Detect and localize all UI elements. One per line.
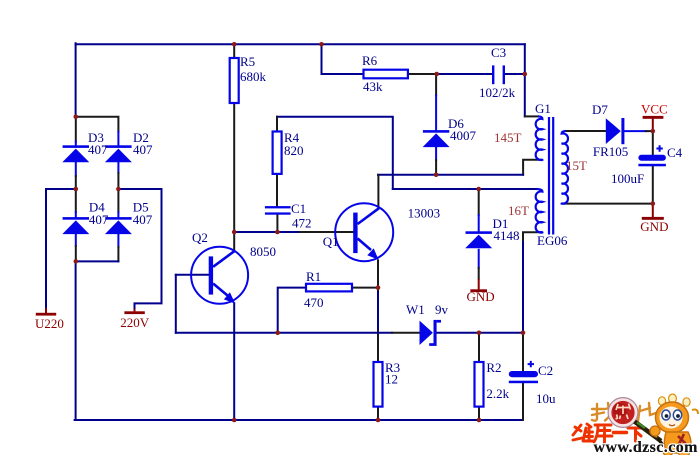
junction R1 branch zener net	[275, 331, 280, 336]
label 15T	[566, 158, 587, 173]
svg-text:C1: C1	[291, 201, 306, 216]
wire C4 bottom lead	[652, 166, 654, 203]
diode D5	[105, 217, 132, 234]
transformer G1 winding 15T	[562, 131, 568, 204]
wire 16T net y189	[393, 188, 537, 190]
watermark text 找	[592, 403, 616, 421]
label GND at D1	[467, 289, 495, 304]
wire R1 left branch	[278, 288, 306, 333]
watermark url www.dzsc.com	[594, 439, 699, 455]
junction R6 branch top	[319, 42, 324, 47]
label VCC	[641, 102, 668, 117]
label R6	[362, 53, 383, 94]
wire C4 top lead	[652, 131, 654, 155]
diode D7	[606, 118, 625, 144]
wire 15T bottom lead to C4 ground node	[565, 203, 653, 205]
resistor R3	[374, 362, 383, 407]
junction C2 16T zener net	[521, 331, 526, 336]
svg-text:GND: GND	[640, 219, 668, 234]
wire R2 top lead	[478, 333, 480, 362]
power VCC symbol	[643, 116, 664, 131]
watermark mascot doll	[650, 394, 698, 455]
transformer G1 core lines	[549, 117, 553, 235]
label C4	[611, 145, 683, 186]
transistor Q1	[335, 203, 393, 261]
junction bridge mid right	[116, 187, 121, 192]
wire AC input left to U220	[46, 189, 76, 308]
junction VCC node	[651, 129, 656, 134]
junction D6 R6 C3 node	[434, 72, 439, 77]
terminal U220	[36, 308, 56, 316]
svg-text:145T: 145T	[494, 130, 522, 145]
wire R5 bottom lead down to base net	[233, 103, 235, 232]
junction C3 right	[523, 72, 528, 77]
watermark text 一	[614, 431, 627, 434]
wire C2 bottom lead to rail corner	[522, 383, 524, 420]
svg-text:8050: 8050	[250, 244, 276, 259]
terminal 220V	[124, 309, 144, 314]
svg-text:15T: 15T	[566, 158, 587, 173]
wire left vertical from top rail to bridge top	[75, 43, 77, 117]
wire R4 top lead	[276, 117, 278, 132]
capacitor C3	[492, 65, 505, 84]
zener diode W1	[420, 320, 442, 346]
junction bridge mid left	[74, 187, 79, 192]
label C1	[291, 201, 312, 231]
wire Q1 emitter lead down	[377, 261, 379, 363]
svg-text:2.2k: 2.2k	[486, 386, 509, 401]
diode D3	[62, 145, 89, 162]
label R1	[304, 269, 324, 310]
svg-text:R2: R2	[486, 360, 501, 375]
svg-text:R6: R6	[362, 53, 378, 68]
svg-text:220V: 220V	[120, 315, 150, 330]
wire Q2 base lead	[176, 274, 209, 276]
ground symbol at C4	[642, 204, 664, 220]
wire R6 branch from top rail	[322, 44, 364, 74]
label D5	[133, 200, 153, 228]
wire R4 to C1 lead	[276, 174, 278, 206]
svg-text:Q2: Q2	[192, 230, 208, 245]
wire right vertical top rail to 145T	[524, 44, 526, 116]
label Q1	[323, 206, 440, 250]
wire bridge bottom horizontal	[76, 260, 119, 262]
svg-text:13003: 13003	[408, 206, 441, 221]
watermark text 维	[573, 424, 593, 441]
label 145T	[494, 130, 522, 145]
wire R6 right lead to D6 node	[408, 73, 437, 75]
svg-text:www.dzsc.com: www.dzsc.com	[594, 439, 699, 455]
junction D1 top	[476, 187, 481, 192]
wire C1 bottom lead	[276, 215, 278, 232]
svg-text:16T: 16T	[508, 203, 529, 218]
wire 15T top lead to D7	[566, 130, 606, 132]
svg-text:U220: U220	[35, 316, 64, 331]
wire C3 right plate to right vertical	[505, 73, 525, 75]
watermark magnifier with 芯	[608, 398, 638, 428]
svg-text:100uF: 100uF	[611, 171, 644, 186]
label R2	[486, 360, 509, 401]
label G1	[535, 101, 551, 116]
transformer G1 winding 145T	[536, 116, 543, 160]
watermark text 库	[594, 425, 612, 443]
capacitor C1	[265, 206, 291, 215]
wire R2 bottom lead	[478, 407, 480, 420]
wire left vertical bridge bottom to ground rail	[75, 261, 77, 420]
wire D7 cathode to VCC node	[624, 130, 652, 132]
wire AC input right to 220V	[118, 189, 161, 309]
label D1	[493, 216, 520, 243]
svg-text:R1: R1	[306, 269, 321, 284]
wire R3 bottom lead	[377, 407, 379, 420]
label U220	[35, 316, 64, 331]
svg-text:12: 12	[385, 372, 398, 387]
junction bridge bottom	[74, 259, 79, 264]
junction R3 bottom rail	[376, 418, 381, 423]
svg-text:9v: 9v	[435, 302, 449, 317]
wire zener net left of W1	[176, 332, 420, 334]
svg-text:FR105: FR105	[593, 144, 628, 159]
junction R2 top zener net	[477, 331, 482, 336]
watermark text 下	[628, 428, 644, 441]
svg-text:407: 407	[133, 212, 153, 227]
wire C2 top lead	[522, 333, 524, 371]
watermark magnifier handle pen	[635, 422, 665, 447]
svg-text:EG06: EG06	[537, 233, 568, 248]
wire 145T bottom lead	[523, 160, 538, 175]
capacitor C2 polarized	[509, 361, 538, 383]
wire R1 right lead	[352, 287, 378, 289]
junction R1 right Q1 emitter	[376, 285, 381, 290]
ground symbol at D1	[470, 279, 487, 292]
label D6	[448, 116, 477, 143]
wire R5 top lead	[233, 44, 235, 58]
watermark text 片	[638, 403, 657, 422]
wire zener net right of W1	[437, 332, 523, 334]
transformer G1 winding 16T	[536, 189, 543, 233]
wire bottom rail	[75, 419, 523, 421]
svg-text:470: 470	[304, 295, 324, 310]
svg-text:G1: G1	[535, 101, 551, 116]
junction R5 top	[232, 42, 237, 47]
wire bridge right branch segments	[117, 132, 119, 262]
junction R5 bottom base net	[232, 230, 237, 235]
capacitor C4 polarized	[638, 145, 666, 166]
wire Q2 collector lead	[233, 232, 235, 251]
label EG06	[537, 233, 568, 248]
svg-text:D7: D7	[592, 102, 608, 117]
svg-text:43k: 43k	[363, 79, 383, 94]
wire base net Q1	[234, 231, 353, 233]
label D7	[592, 102, 628, 159]
junction Q2 emitter bottom rail	[232, 418, 237, 423]
wire top rail	[76, 43, 525, 45]
label Q2	[192, 230, 276, 259]
svg-text:102/2k: 102/2k	[479, 85, 516, 100]
label C3	[479, 45, 516, 100]
diode D6	[423, 130, 450, 147]
label D3	[88, 130, 108, 157]
wire Q1 collector lead	[377, 175, 379, 209]
diode D2	[105, 145, 132, 162]
wire 16T bottom lead down	[523, 232, 539, 333]
wire bridge top horizontal	[76, 117, 119, 132]
label 16T	[508, 203, 529, 218]
wire Q2 emitter lead to bottom rail	[233, 303, 235, 420]
svg-text:C4: C4	[667, 145, 683, 160]
svg-text:W1: W1	[406, 302, 425, 317]
resistor R6	[364, 70, 408, 79]
svg-text:472: 472	[292, 216, 312, 231]
wire Q2 base branch down to zener net	[175, 275, 177, 333]
svg-text:407: 407	[89, 212, 109, 227]
resistor R2	[475, 362, 484, 407]
junction D6 bottom collector net	[434, 173, 439, 178]
wire D1 bottom lead	[478, 250, 480, 279]
resistor R1	[306, 284, 352, 292]
wire D1 top lead	[478, 189, 480, 232]
junction C1 R4 base net	[275, 230, 280, 235]
label 220V	[120, 315, 150, 330]
svg-text:4007: 4007	[450, 128, 477, 143]
label D2	[133, 130, 153, 157]
svg-text:C2: C2	[538, 363, 553, 378]
svg-text:10u: 10u	[536, 391, 556, 406]
junction C4 ground node	[651, 201, 656, 206]
svg-text:4148: 4148	[494, 228, 520, 243]
svg-text:407: 407	[88, 142, 108, 157]
label D4	[89, 200, 109, 228]
label R4	[284, 130, 304, 158]
diode D1	[465, 231, 492, 248]
wire bridge left branch segments	[75, 117, 77, 262]
label R3	[385, 360, 400, 387]
wire D6 top lead	[435, 74, 437, 131]
junction R2 bottom rail	[477, 418, 482, 423]
svg-text:C3: C3	[491, 45, 506, 60]
diode D4	[62, 217, 89, 234]
svg-text:407: 407	[133, 142, 153, 157]
svg-text:VCC: VCC	[641, 102, 668, 117]
label W1	[406, 302, 449, 317]
wire D6 node to C3 left plate	[437, 73, 492, 75]
svg-text:GND: GND	[467, 289, 495, 304]
wire 145T top lead	[525, 115, 538, 117]
svg-text:680k: 680k	[240, 69, 267, 84]
transistor Q2	[191, 247, 248, 304]
wire collector net y175	[378, 174, 523, 176]
wire D6 bottom lead	[435, 147, 437, 174]
junction bridge top	[74, 115, 79, 120]
label C2	[536, 363, 556, 406]
svg-text:820: 820	[284, 143, 304, 158]
svg-text:R5: R5	[240, 54, 255, 69]
resistor R5	[230, 58, 239, 103]
resistor R4	[273, 132, 282, 174]
wire R4 top net to 16T net	[277, 117, 393, 189]
label R5	[240, 54, 267, 84]
label GND at C4	[640, 219, 668, 234]
svg-text:Q1: Q1	[323, 234, 339, 249]
